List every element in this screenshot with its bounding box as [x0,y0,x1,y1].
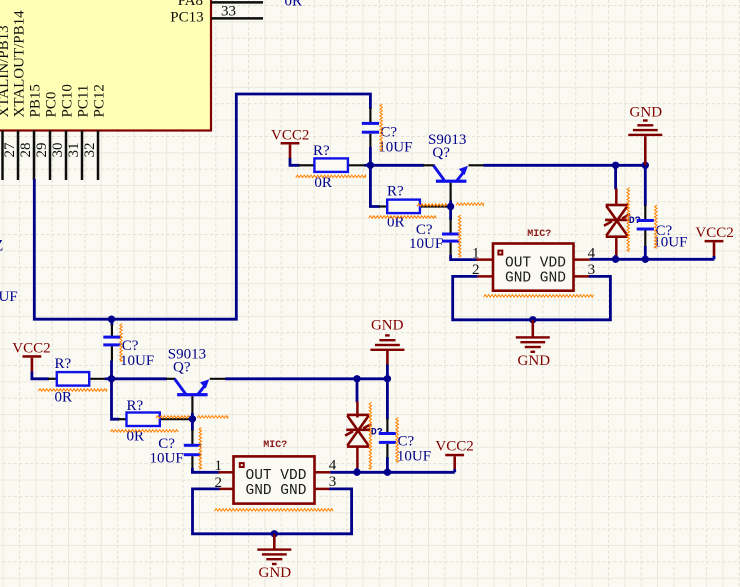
microphone MIC? body (bottom) [234,456,315,503]
IC pin 26 XTALIN/PB13 [0,25,12,180]
svg-text:MIC?: MIC? [527,229,551,240]
transistor Q? S9013 (top) [434,166,469,183]
wire MIC? VDD rail (top) [590,258,715,261]
label 0R (top series) [387,214,405,230]
capacitor C? (top supply bypass, 10UF) [637,165,654,259]
wire PB15 net (long L-shaped route) [34,94,370,319]
squiggle left of top base junction [417,204,448,206]
label D? (top) [629,216,641,227]
wire to Q? collector (top) [370,164,434,167]
svg-text:OUT VDD: OUT VDD [246,468,307,484]
ground GND (top right) [628,104,662,165]
svg-text:PC13: PC13 [170,10,203,26]
wire MIC? gnd loop (bottom) [193,489,352,534]
svg-text:Q?: Q? [432,145,450,161]
svg-text:C?: C? [122,338,139,354]
svg-text:0R: 0R [55,389,73,405]
IC pin 33 PC13 [170,3,263,25]
svg-text:R?: R? [313,143,330,159]
svg-text:XTALIN/PB13: XTALIN/PB13 [0,25,12,117]
label MIC? (top) [527,229,551,240]
pin number 4 (top MIC) [588,245,596,261]
microphone MIC? body (top) [493,244,574,291]
svg-text:VCC2: VCC2 [695,225,733,241]
svg-text:GND: GND [259,565,292,581]
junction C? on VDD rail (top) [642,256,649,263]
svg-text:33: 33 [221,3,236,19]
label 10UF (top coupling cap) [378,139,412,155]
svg-text:10UF: 10UF [378,139,412,155]
wire MIC? VDD rail (bottom) [330,471,455,474]
junction C? on VDD rail (bottom) [384,469,391,476]
squiggle right of top bypass cap [655,205,658,248]
junction diode tap (bottom rail) [353,375,360,382]
label 10UF (top bypass) [653,235,687,251]
label 10UF (cut off left edge) [0,289,18,305]
svg-text:10UF: 10UF [150,451,184,467]
svg-text:VCC2: VCC2 [271,128,309,144]
squiggle right of bottom output cap [199,428,202,470]
squiggle under top MIC [484,295,594,298]
svg-text:PC10: PC10 [59,84,75,117]
squiggle under bottom series resistor [110,430,178,433]
squiggle left of bottom base junction [156,416,190,418]
transistor Q? S9013 (bottom) [175,379,210,396]
capacitor C? (bottom coupling, 10UF) [103,319,120,379]
svg-text:GND: GND [630,104,663,120]
label 10UF (bottom output cap) [150,451,184,467]
svg-text:GND GND: GND GND [505,271,566,287]
label S9013 (top) [428,132,466,148]
squiggle right of bottom coupling cap [120,324,123,362]
squiggle right of bottom base junction [197,416,228,419]
junction cap/GND tap (bottom rail) [384,375,391,382]
svg-text:XTALOUT/PB14: XTALOUT/PB14 [11,10,27,118]
junction D? on VDD rail (bottom) [353,469,360,476]
svg-text:1: 1 [472,245,480,261]
pin number 1 (top MIC) [472,245,480,261]
svg-text:28: 28 [18,143,34,158]
node base junction (bottom) [189,415,196,422]
label R? (bottom bias) [55,356,72,372]
squiggle under top bias resistor [296,175,366,178]
svg-text:PC12: PC12 [91,84,107,117]
svg-text:GND: GND [518,353,551,369]
svg-text:VCC2: VCC2 [435,439,473,455]
label MIC? (bottom) [263,440,287,451]
label Q? (bottom) [173,360,191,376]
ground GND (below top MIC) [516,320,550,369]
svg-text:Z: Z [0,237,3,254]
ground GND (below bottom MIC) [257,534,291,581]
label C? (top coupling cap) [380,125,397,141]
svg-text:0R: 0R [285,0,303,10]
svg-text:27: 27 [2,142,18,158]
diode D? TVS (bottom) [345,379,371,473]
svg-text:30: 30 [50,143,66,158]
label 10UF (bottom bypass) [397,449,431,465]
IC pin 30 PC10 [50,84,75,180]
svg-text:29: 29 [34,143,50,158]
svg-text:10UF: 10UF [409,236,443,252]
power VCC2 (bottom VDD) [435,439,473,473]
power VCC2 (top VDD) [695,225,733,259]
svg-text:PC0: PC0 [43,92,59,118]
label C? (top bypass) [656,223,673,239]
capacitor C? (bottom supply bypass, 10UF) [379,379,396,473]
node gnd tap (top MIC loop) [529,316,536,323]
squiggle right of bottom bypass cap [396,418,399,463]
wire to Q? collector (bottom) [112,377,176,380]
svg-text:31: 31 [66,143,82,158]
svg-text:10UF: 10UF [120,353,154,369]
label C? (bottom coupling cap) [122,338,139,354]
junction D? on VDD rail (top) [612,256,619,263]
node junction R?/C? (top) [367,162,374,169]
svg-text:32: 32 [82,143,98,158]
svg-text:R?: R? [387,183,404,199]
pin number 2 (top MIC) [472,262,480,278]
power VCC2 (top circuit base feed) [271,128,309,160]
resistor R? (top base bias, 0R) [299,158,371,172]
label R? (top bias) [313,143,330,159]
svg-text:R?: R? [127,398,144,414]
resistor R? (top emitter/base series, 0R) [370,164,450,213]
svg-text:PC11: PC11 [75,85,91,118]
junction diode tap (top rail) [612,162,619,169]
capacitor C? (top coupling, 10UF) [362,108,379,149]
junction on PB15 wire at C? tap [108,316,115,323]
svg-text:10UF: 10UF [0,289,18,305]
MIC? pin text OUT VDD (bottom) [246,468,307,484]
IC pin 31 PC11 [66,85,91,180]
IC U1 body (partial, top-left) [0,0,211,131]
pin number 4 (bottom MIC) [329,458,337,474]
MIC? pin stubs (top) [476,260,590,277]
svg-text:MIC?: MIC? [263,440,287,451]
label C? (bottom output cap) [158,436,175,452]
label S9013 (bottom) [168,346,206,362]
svg-text:OUT VDD: OUT VDD [505,255,566,271]
label 0R (bottom bias) [55,389,73,405]
pin number 1 (bottom MIC) [215,458,223,474]
wire VCC2 to R? [290,158,300,165]
label 10UF (top output cap) [409,236,443,252]
label Q? (top) [432,145,450,161]
node base junction (top) [447,203,454,210]
squiggle right of top base junction [456,203,483,206]
squiggle under bottom bias resistor [38,389,107,391]
junction cap/GND tap (top rail) [642,162,649,169]
resistor R? (bottom base bias, 0R) [48,372,112,386]
svg-text:C?: C? [398,433,415,449]
label R? (bottom series) [127,398,144,414]
IC pin 32 PC12 [82,84,107,180]
svg-text:PB15: PB15 [27,84,43,117]
label 0R (bottom series) [127,429,145,445]
resistor R? (bottom series, 0R) [112,378,193,426]
squiggle right of top coupling cap [380,104,383,151]
squiggle right of top output cap [458,215,461,257]
svg-text:PA8: PA8 [178,0,203,9]
wire Q? emitter to GND (bottom) [225,377,387,380]
label 10UF (bottom coupling cap) [120,353,154,369]
pin number 3 (top MIC) [588,262,596,278]
squiggle under bottom MIC [215,509,334,512]
Q? emitter/base pin stubs (top) [451,165,485,206]
IC pin 29 PC0 [34,92,59,180]
label D? (bottom) [371,428,383,439]
MIC? pin text GND GND (bottom) [246,483,307,499]
svg-text:10UF: 10UF [653,235,687,251]
node gnd tap (bottom MIC loop) [271,530,278,537]
label C? (bottom bypass) [398,433,415,449]
squiggle left of top D? [627,188,630,252]
wire VCC2 to R? (bottom) [32,372,49,379]
pin number 2 (bottom MIC) [215,475,223,491]
squiggle left of bottom D? [369,402,372,469]
label R? (top series) [387,183,404,199]
net label Z (cut off left edge) [0,237,3,254]
svg-text:10UF: 10UF [397,449,431,465]
capacitor C? (bottom output coupling, 10UF) [184,419,220,472]
ground GND (bottom circuit top) [370,318,404,379]
MIC? pin text OUT VDD (top) [505,255,566,271]
Q? emitter/base pin stubs (bottom) [192,379,226,419]
svg-text:VCC2: VCC2 [12,340,50,356]
diode D? TVS (top) [604,165,630,259]
resistor label 0R (cut off top edge) [285,0,303,10]
svg-text:GND: GND [371,318,404,334]
label C? (top output cap) [416,222,433,238]
capacitor C? (top output coupling, 10UF) [442,207,477,260]
IC pin 28 PB15 [18,84,43,180]
wire C? to junction [369,147,372,165]
svg-text:Q?: Q? [173,360,191,376]
wire Q? emitter to GND (top) [484,164,646,167]
wire MIC? gnd loop (top) [453,276,611,319]
IC pin 27 XTALOUT/PB14 [2,10,27,180]
MIC? pin text GND GND (top) [505,271,566,287]
label 0R (top bias) [314,175,332,191]
squiggle under top series resistor [369,216,436,218]
svg-text:R?: R? [55,356,72,372]
power VCC2 (bottom circuit base feed) [12,340,50,373]
svg-text:1: 1 [215,458,223,474]
MIC? pin stubs (bottom) [219,472,331,489]
node junction R?/C? (bottom) [108,375,115,382]
IC pin PA8 [178,0,263,9]
svg-text:GND GND: GND GND [246,483,307,499]
pin number 3 (bottom MIC) [329,474,337,490]
